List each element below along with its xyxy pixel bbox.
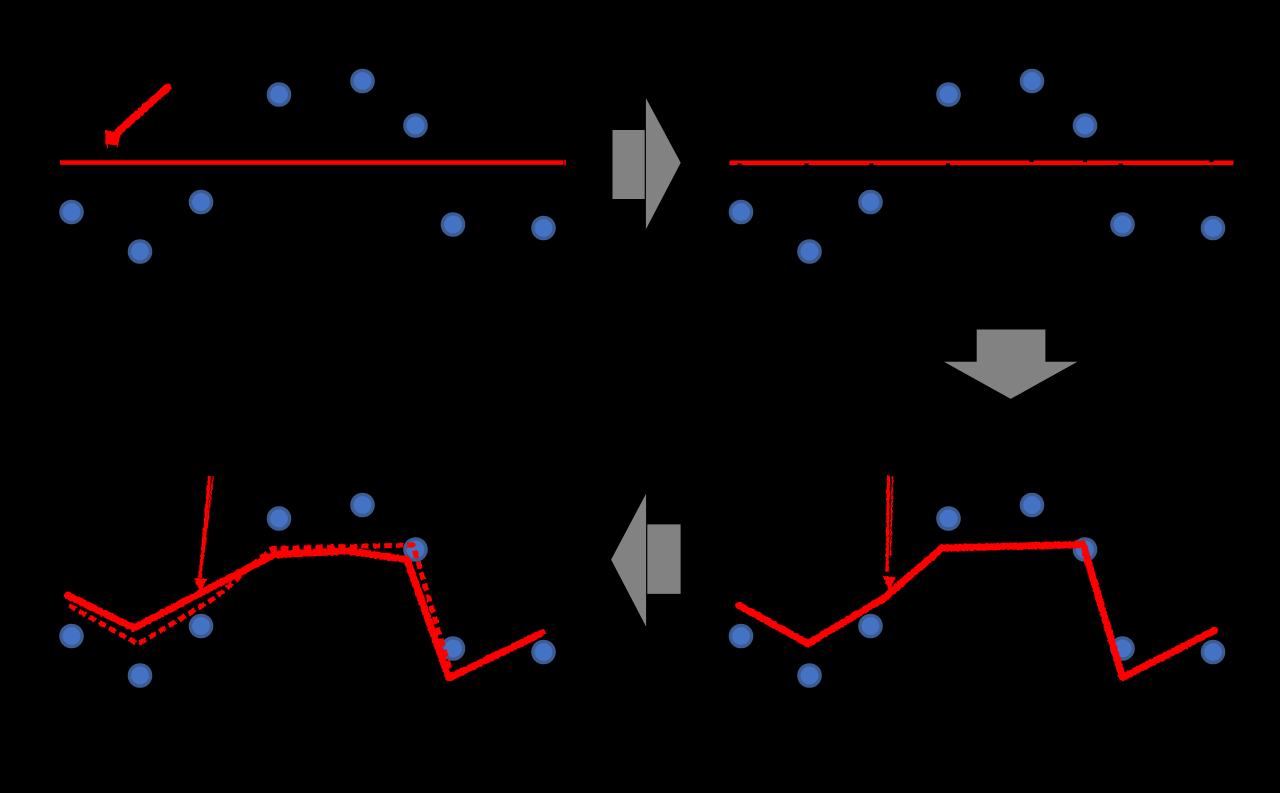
data point TR8 [1202,217,1223,238]
data point BL3 [190,615,211,636]
data point BL6 [405,539,426,560]
data point BL8 [533,641,554,662]
block arrow right (top middle) [613,97,681,230]
piecewise fit line bottom-right [739,545,1215,678]
data point BR6 [1074,539,1095,560]
data point TL4 [268,84,289,105]
scatter dots bottom-right [730,494,1223,686]
red annotation arrow top-left [105,88,168,149]
data point TL8 [533,217,554,238]
data point TL2 [129,241,150,262]
data point TR6 [1074,115,1095,136]
updated fit (solid) bottom-left [68,551,541,678]
data point BR2 [799,665,820,686]
data point BR5 [1021,494,1042,515]
data point BR3 [860,615,881,636]
data point TR2 [799,241,820,262]
data point TR4 [938,84,959,105]
seam of right block arrow [645,97,646,230]
vertical annotation arrow bottom-right [883,476,896,592]
data point BR4 [938,508,959,529]
data point TL3 [190,191,211,212]
data point TL5 [352,70,373,91]
data point TL7 [442,214,463,235]
vertical annotation arrow bottom-left [194,476,213,592]
block arrow down (right middle) [944,330,1078,399]
scatter dots top-right [730,70,1223,262]
initial flat fit line top-left [60,160,566,166]
data point BL7 [442,638,463,659]
data point BR1 [730,625,751,646]
data point TR7 [1112,214,1133,235]
data point TR5 [1021,70,1042,91]
block arrow left (bottom middle) [611,493,681,627]
data point BL2 [129,665,150,686]
flat fit line top-right with dash notches [730,161,1234,166]
data point BL5 [352,494,373,515]
data point BL4 [268,508,289,529]
data point BL1 [61,625,82,646]
seam of left block arrow [646,493,647,627]
scatter dots top-left [61,70,554,262]
scatter dots bottom-left [61,494,554,686]
data point TL6 [405,115,426,136]
data point TR1 [730,201,751,222]
data point BR8 [1202,641,1223,662]
previous fit (dashed) bottom-left [69,545,545,678]
data point BR7 [1112,638,1133,659]
data point TR3 [860,191,881,212]
data point TL1 [61,201,82,222]
